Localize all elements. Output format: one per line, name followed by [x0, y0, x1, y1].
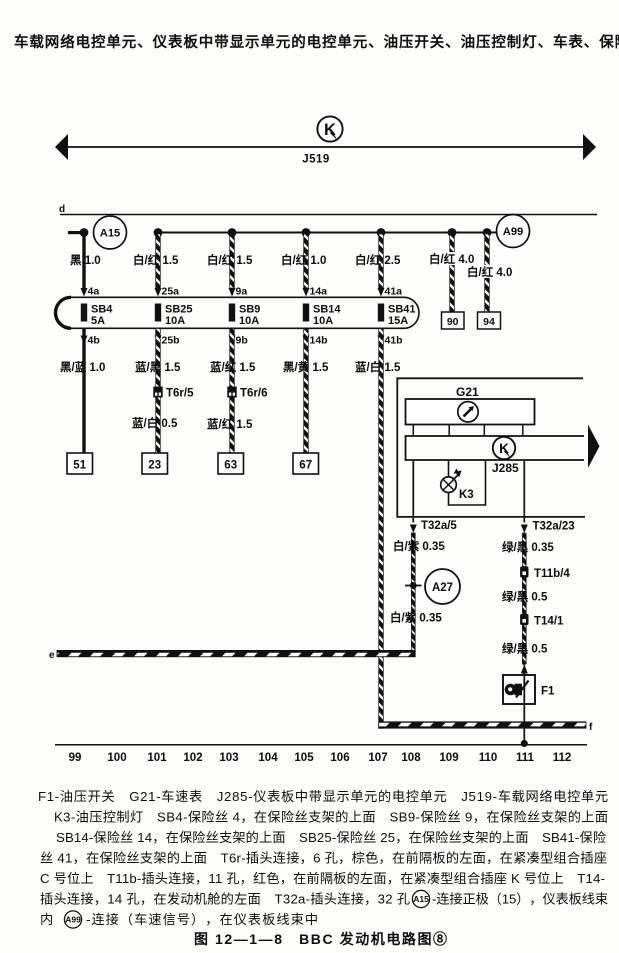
svg-text:108: 108 — [401, 752, 421, 764]
pin 41b — [378, 335, 403, 347]
svg-text:A99: A99 — [503, 226, 524, 238]
svg-text:-连接（车速信号），在仪表板线束中: -连接（车速信号），在仪表板线束中 — [86, 911, 318, 927]
svg-text:蓝/白 0.5: 蓝/白 0.5 — [132, 416, 178, 430]
fuse SB4 5A — [81, 304, 113, 328]
label 白/红 4.0 (second) — [466, 265, 516, 279]
pin 41a — [385, 286, 403, 298]
pin 9a — [236, 286, 248, 298]
svg-text:9b: 9b — [236, 335, 248, 347]
svg-text:SB4: SB4 — [91, 304, 113, 316]
svg-text:绿/黑 0.5: 绿/黑 0.5 — [502, 642, 548, 656]
svg-text:110: 110 — [479, 752, 498, 764]
label 蓝/黑 1.5 — [135, 360, 181, 374]
junction dot wire 5 — [377, 228, 386, 237]
G21 pins to J285 — [413, 425, 523, 436]
svg-text:蓝/黑 1.5: 蓝/黑 1.5 — [135, 360, 181, 374]
junction dot wire 2 — [154, 228, 163, 237]
svg-text:100: 100 — [107, 752, 126, 764]
svg-text:4a: 4a — [88, 286, 100, 298]
wire 白/红 1.0 (x=306) — [303, 234, 310, 297]
pin 4a — [88, 286, 100, 298]
label 黑/蓝 1.0 — [60, 360, 105, 374]
svg-text:103: 103 — [219, 752, 238, 764]
svg-text:e: e — [49, 650, 55, 661]
label 白/红 1.0 — [281, 253, 326, 267]
svg-text:107: 107 — [368, 752, 387, 764]
legend text — [38, 788, 608, 927]
wire 白/红 4.0 to terminal 90 — [450, 234, 455, 312]
svg-text:SB14-保险丝 14，在保险丝支架的上面 SB25-保险丝: SB14-保险丝 14，在保险丝支架的上面 SB25-保险丝 25，在保险丝支架… — [56, 830, 606, 845]
pin 4b — [81, 335, 100, 347]
svg-text:23: 23 — [148, 460, 161, 472]
wire bus to A99 — [158, 232, 497, 234]
svg-text:109: 109 — [439, 752, 458, 764]
junction dot wire 6 — [448, 228, 457, 237]
gauge symbol — [458, 402, 478, 422]
svg-text:101: 101 — [147, 752, 167, 764]
svg-text:白/紫 0.35: 白/紫 0.35 — [393, 539, 445, 553]
label 绿/黑 0.5 (a) — [502, 590, 548, 604]
svg-text:10A: 10A — [239, 315, 259, 327]
terminal 63 — [218, 453, 244, 474]
svg-text:丝 41，在保险丝支架的上面 T6r-插头连接，6 孔，棕色: 丝 41，在保险丝支架的上面 T6r-插头连接，6 孔，棕色，在前隔板的左面，在… — [40, 850, 607, 866]
J285 lead to T32a/23 — [523, 460, 525, 523]
label 白/红 1.5 — [133, 253, 179, 267]
fuse SB41 15A — [378, 304, 416, 328]
svg-text:黑/黄 1.5: 黑/黄 1.5 — [283, 360, 329, 374]
junction marker at A27 — [405, 582, 422, 589]
connector T6r/6 — [227, 387, 267, 400]
svg-text:A15: A15 — [100, 228, 121, 240]
wire 蓝/白 1.5 (W5 lower, runs to line f) — [379, 329, 384, 729]
connector symbol K on J285 band — [493, 437, 515, 459]
svg-text:K3: K3 — [459, 489, 474, 501]
wire 白/紫 0.35 — [411, 533, 415, 651]
svg-text:F1: F1 — [541, 686, 555, 698]
terminal 90 — [442, 312, 465, 329]
svg-text:蓝/红 1.5: 蓝/红 1.5 — [207, 417, 253, 431]
terminal 23 — [142, 453, 168, 474]
pin T32a/5 — [410, 520, 458, 533]
svg-text:C 号位上 T11b-插头连接，11 孔，红色，在前隔板的左: C 号位上 T11b-插头连接，11 孔，红色，在前隔板的左面，在紧凑型组合插座… — [40, 870, 605, 886]
oil pressure switch F1 — [503, 675, 555, 704]
svg-text:41b: 41b — [385, 335, 403, 347]
connector T11b/4 — [520, 567, 570, 581]
svg-text:15A: 15A — [388, 315, 408, 327]
label 白/红 4.0 — [428, 252, 474, 266]
wire 绿/黑 0.5 (a) — [522, 578, 526, 615]
svg-text:5A: 5A — [91, 315, 105, 327]
svg-text:白/紫 0.35: 白/紫 0.35 — [390, 611, 442, 625]
legend symbol A99 — [64, 911, 81, 928]
terminal 51 — [67, 453, 93, 474]
fuse SB9 10A — [229, 304, 261, 328]
wire 黑/蓝 1.0 (W1 lower) — [82, 329, 85, 454]
svg-text:白/红 4.0: 白/红 4.0 — [467, 265, 512, 279]
svg-text:4b: 4b — [88, 335, 100, 347]
svg-text:J519: J519 — [302, 154, 330, 166]
label G21 — [456, 385, 479, 399]
line f — [379, 722, 593, 733]
svg-text:105: 105 — [294, 752, 314, 764]
svg-text:41a: 41a — [385, 286, 403, 298]
wire 黑/黄 1.5 (W4 lower) — [304, 329, 309, 454]
fuse holder strip — [56, 297, 420, 328]
label 蓝/白 0.5 — [132, 416, 178, 430]
svg-text:10A: 10A — [165, 315, 185, 327]
line e — [49, 650, 415, 661]
svg-text:T6r/6: T6r/6 — [240, 388, 268, 400]
label 绿/黑 0.35 — [502, 540, 554, 554]
K3 return loop — [449, 460, 486, 505]
svg-text:T6r/5: T6r/5 — [166, 388, 194, 400]
pin arrow into F1 — [521, 664, 528, 675]
wire 白/红 4.0 to terminal 94 — [485, 234, 490, 312]
svg-text:14a: 14a — [310, 286, 328, 298]
pin T32a/23 — [521, 521, 575, 534]
svg-text:51: 51 — [73, 460, 86, 472]
svg-text:25a: 25a — [162, 286, 180, 298]
svg-text:T14/1: T14/1 — [534, 616, 564, 628]
svg-text:G21: G21 — [456, 385, 479, 399]
wire 蓝/黑 1.5 (W2 lower) — [156, 329, 161, 454]
fuse SB14 10A — [303, 304, 342, 328]
label 白/红 1.5 — [207, 253, 253, 267]
svg-text:F1-油压开关 G21-车速表 J285-仪表板中带显示单元: F1-油压开关 G21-车速表 J285-仪表板中带显示单元的电控单元 J519… — [38, 788, 608, 804]
svg-text:内: 内 — [40, 912, 53, 927]
svg-text:90: 90 — [447, 316, 459, 328]
label 绿/黑 0.5 (b) — [502, 642, 548, 656]
svg-text:14b: 14b — [310, 335, 328, 347]
svg-text:10A: 10A — [313, 315, 333, 327]
connector symbol K on J519 — [317, 116, 342, 141]
label 蓝/红 1.5 — [210, 360, 256, 374]
J285 internal bus band — [406, 436, 585, 460]
svg-text:102: 102 — [183, 752, 202, 764]
J285 lead to T32a/5 — [412, 460, 414, 523]
wire 白/红 1.5 (x=158) — [155, 234, 162, 297]
svg-text:K3-油压控制灯 SB4-保险丝 4，在保险丝支架的上面 S: K3-油压控制灯 SB4-保险丝 4，在保险丝支架的上面 SB9-保险丝 9，在… — [54, 810, 608, 825]
svg-text:9a: 9a — [236, 286, 248, 298]
wire 绿/黑 0.35 — [522, 533, 526, 567]
track numbers — [69, 752, 572, 764]
connection A99 — [497, 215, 530, 248]
rail d — [59, 204, 597, 215]
svg-text:A99: A99 — [65, 915, 81, 925]
wire 蓝/红 1.5 (W3 lower) — [230, 329, 235, 454]
speedometer G21 box — [406, 399, 535, 425]
control unit J285 outline — [397, 378, 585, 517]
svg-text:白/红 2.5: 白/红 2.5 — [355, 253, 401, 267]
fuse SB25 10A — [155, 304, 193, 328]
label K3 — [459, 489, 474, 501]
svg-text:T32a/5: T32a/5 — [421, 520, 457, 532]
svg-text:A15: A15 — [413, 894, 429, 904]
svg-text:白/红 1.5: 白/红 1.5 — [207, 253, 253, 267]
junction dot wire 3 — [228, 228, 237, 237]
svg-text:67: 67 — [299, 460, 312, 472]
svg-text:f: f — [589, 722, 593, 733]
caption — [194, 931, 447, 947]
svg-text:d: d — [59, 204, 65, 215]
svg-text:黑/蓝 1.0: 黑/蓝 1.0 — [60, 360, 105, 374]
bus J519 — [55, 134, 596, 160]
label 蓝/白 1.5 — [355, 360, 401, 374]
wire 绿/黑 0.5 (b) — [522, 625, 526, 664]
label 黑 1.0 — [70, 254, 101, 267]
svg-text:J285: J285 — [492, 461, 519, 475]
junction dot wire 4 — [302, 228, 311, 237]
pin 25a — [162, 286, 180, 298]
svg-text:白/红 1.5: 白/红 1.5 — [133, 253, 179, 267]
svg-text:63: 63 — [224, 460, 237, 472]
wire 白/红 2.5 (x=381) — [378, 234, 385, 297]
svg-text:SB14: SB14 — [313, 304, 341, 316]
wire F1 to ground rail — [521, 704, 528, 747]
svg-text:蓝/白 1.5: 蓝/白 1.5 — [355, 360, 401, 374]
svg-text:白/红 1.0: 白/红 1.0 — [281, 253, 326, 267]
terminal 67 — [293, 453, 319, 474]
svg-text:绿/黑 0.35: 绿/黑 0.35 — [502, 540, 554, 554]
label 白/红 2.5 — [355, 253, 401, 267]
connection A15 — [68, 216, 127, 249]
svg-text:图 12—1—8 BBC 发动机电路图⑧: 图 12—1—8 BBC 发动机电路图⑧ — [194, 931, 447, 947]
svg-text:插头连接，14 孔，在发动机舱的左面 T32a-插头连接，3: 插头连接，14 孔，在发动机舱的左面 T32a-插头连接，32 孔 — [40, 891, 410, 907]
svg-text:111: 111 — [516, 752, 535, 764]
svg-text:-连接正极（15），仪表板线束: -连接正极（15），仪表板线束 — [432, 891, 608, 907]
svg-text:94: 94 — [483, 316, 495, 328]
svg-text:SB9: SB9 — [239, 304, 260, 316]
svg-text:25b: 25b — [162, 335, 180, 347]
title — [14, 33, 619, 51]
svg-text:车载网络电控单元、仪表板中带显示单元的电控单元、油压开关、油: 车载网络电控单元、仪表板中带显示单元的电控单元、油压开关、油压控制灯、车表、保险 — [14, 33, 619, 51]
pin 25b — [155, 335, 180, 347]
label 白/紫 0.35 — [393, 539, 445, 553]
label 蓝/红 1.5 — [207, 417, 253, 431]
terminal 94 — [478, 312, 501, 329]
junction dot wire 7 — [483, 228, 492, 237]
svg-text:黑 1.0: 黑 1.0 — [70, 254, 101, 267]
rail (track numbers) — [55, 744, 587, 746]
svg-text:蓝/红 1.5: 蓝/红 1.5 — [210, 360, 256, 374]
svg-text:106: 106 — [330, 752, 349, 764]
label J519 — [302, 154, 330, 166]
wire 白/红 1.5 (x=232) — [229, 234, 236, 297]
label 黑/黄 1.5 — [283, 360, 329, 374]
pin 9b — [229, 335, 248, 347]
pin 14b — [303, 335, 328, 347]
svg-text:SB41: SB41 — [388, 304, 416, 316]
svg-text:SB25: SB25 — [165, 304, 193, 316]
pin 14a — [310, 286, 328, 298]
connection A27 — [425, 569, 460, 604]
legend symbol A15 — [412, 890, 429, 907]
label J285 — [492, 461, 519, 475]
lamp K3 — [441, 460, 462, 493]
svg-text:T32a/23: T32a/23 — [533, 521, 575, 533]
svg-text:白/红 4.0: 白/红 4.0 — [429, 252, 474, 266]
svg-text:112: 112 — [553, 752, 572, 764]
svg-text:T11b/4: T11b/4 — [534, 568, 570, 580]
svg-text:104: 104 — [258, 752, 278, 764]
J285 band arrow — [588, 425, 600, 469]
connector T6r/5 — [153, 387, 194, 400]
svg-text:绿/黑 0.5: 绿/黑 0.5 — [502, 590, 548, 604]
wire 黑 1.0 (W1 upper) — [81, 233, 88, 297]
svg-text:99: 99 — [69, 752, 82, 764]
connector T14/1 — [520, 614, 564, 628]
svg-text:A27: A27 — [432, 582, 453, 594]
label 白/紫 0.35 (second) — [390, 611, 442, 625]
